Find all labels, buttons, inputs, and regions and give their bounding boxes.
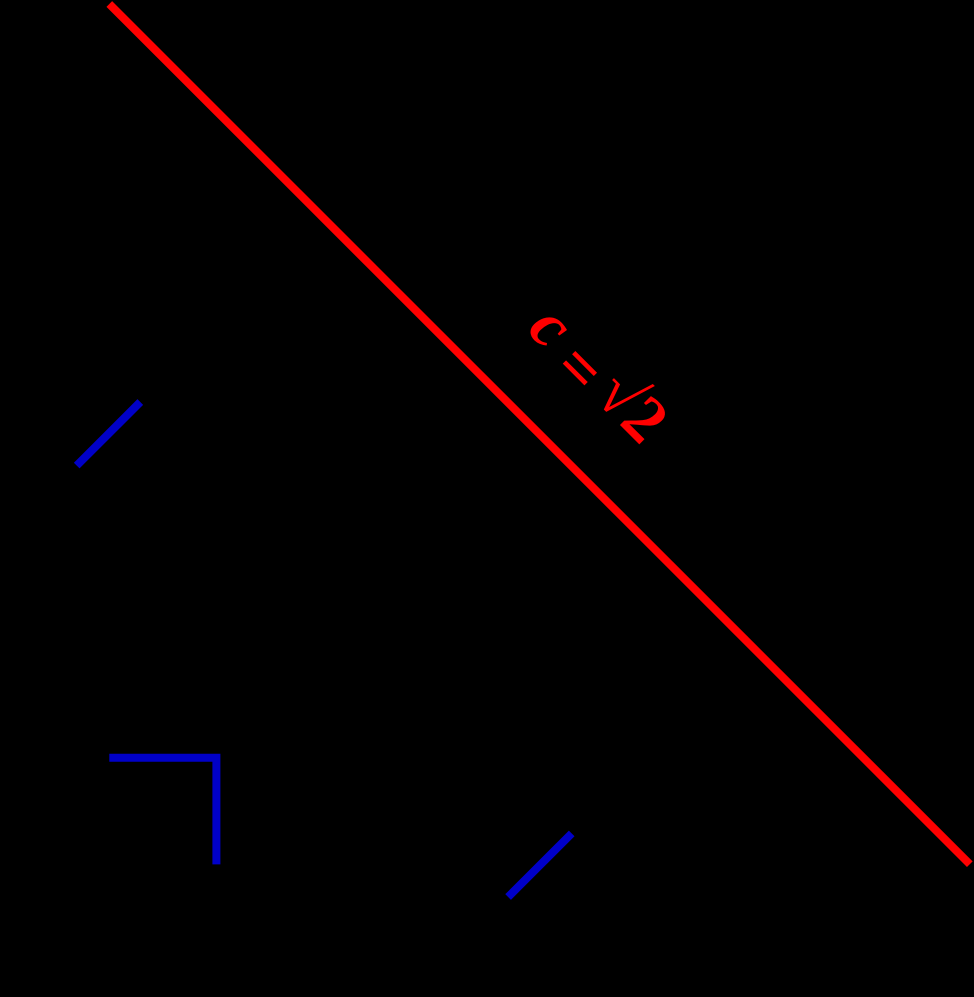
right angle mark at bottom-left vertex	[109, 758, 216, 865]
tick mark on leg a	[77, 402, 141, 466]
triangle leg b (horizontal, black on black)	[109, 860, 970, 868]
tick mark on leg b	[508, 833, 572, 897]
hypotenuse c (red)	[109, 4, 970, 864]
label c = sqrt(2) (red, rotated along hypotenuse)	[508, 290, 682, 464]
triangle leg a (vertical, black on black)	[105, 4, 113, 864]
